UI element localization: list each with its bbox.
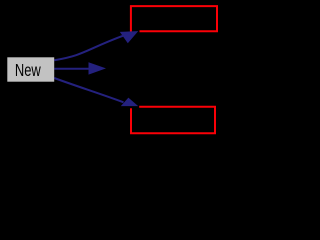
arrowhead: edge to top node xyxy=(120,31,138,43)
node New (current node, grey fill) xyxy=(7,57,54,81)
arrowhead: edge to middle hidden node xyxy=(89,62,107,74)
node top (truncated node, red border, open at arrow overlap) xyxy=(131,6,217,32)
arrowhead: edge to bottom node xyxy=(121,98,138,107)
wire: edge New to middle hidden node xyxy=(54,68,92,70)
node bottom (truncated node, red border, open at arrow overlap) xyxy=(131,107,215,134)
wire: edge New to bottom node xyxy=(54,78,123,102)
wire: edge New to top node xyxy=(54,36,123,61)
svg-text:New: New xyxy=(15,61,41,81)
